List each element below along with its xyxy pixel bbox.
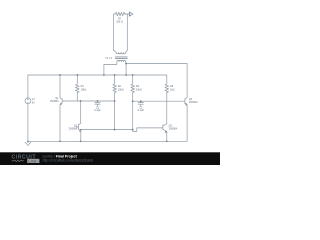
wire R7 left column (113, 14, 115, 50)
resistor R7 (top horizontal) (114, 12, 126, 16)
wire mid rail right segment (133, 100, 183, 102)
component labels (32, 18, 198, 131)
resistor R4 (165, 75, 169, 93)
wire R7 right column (126, 14, 128, 50)
svg-text:1kΩ: 1kΩ (170, 88, 175, 91)
transistor Q1 (mid-left, mirrored NPN) (60, 75, 64, 141)
svg-text:T1 1:1: T1 1:1 (105, 57, 113, 60)
wire R7 to flag (125, 13, 129, 15)
voltage source V1 (25, 98, 31, 104)
wire top rail (28, 74, 167, 76)
ground (25, 141, 31, 145)
wire V1 column bottom (27, 104, 29, 142)
svg-text:5V: 5V (32, 101, 35, 104)
svg-text:2N3904: 2N3904 (169, 127, 178, 130)
junction dots (27, 63, 168, 142)
wire column R3 down (132, 101, 134, 129)
capacitor C1 (95, 101, 100, 106)
output flag (129, 12, 133, 17)
svg-text:10kΩ: 10kΩ (81, 88, 87, 91)
transistor Q3 (bottom-right NPN) (163, 93, 167, 141)
wire Q2 emitter to cross-coupling (81, 129, 133, 131)
svg-text:0.1µF: 0.1µF (94, 109, 101, 112)
transformer T1 top winding (114, 50, 128, 54)
wire step to Q3 base (133, 128, 163, 131)
svg-text:2N3904: 2N3904 (189, 101, 198, 104)
transistor Q2 (bottom-left NPN) (76, 101, 80, 141)
wire collector feed Q4 (126, 63, 187, 65)
wire column P (114, 101, 116, 130)
svg-text:100 Ω: 100 Ω (116, 21, 123, 24)
resistor R3 (131, 75, 135, 101)
svg-text:0.1µF: 0.1µF (138, 109, 145, 112)
svg-text:10kΩ: 10kΩ (136, 88, 142, 91)
capacitor C2 (138, 101, 143, 106)
CircuitLab logo (12, 154, 40, 163)
wire T1 bottom-right lead (125, 64, 127, 76)
svg-text:10kΩ: 10kΩ (118, 88, 124, 91)
transformer T1 bottom winding (117, 60, 126, 64)
resistor R2 (113, 75, 117, 101)
svg-text:2N3904: 2N3904 (69, 128, 78, 131)
svg-text:http://circuitlab.com/c6kl2z6b: http://circuitlab.com/c6kl2z6bzk6 (43, 159, 93, 163)
footer bar (0, 152, 220, 165)
transformer T1 core (115, 57, 127, 59)
resistor R1 (76, 75, 80, 101)
svg-text:LAB: LAB (28, 158, 36, 163)
wire T1 bottom-left lead (104, 64, 117, 75)
svg-text:2N3904: 2N3904 (50, 100, 59, 103)
wire bottom rail (28, 140, 187, 142)
footer text (43, 154, 93, 162)
wire mid rail left segment (64, 100, 115, 102)
wire V1 column top (27, 75, 29, 98)
transistor Q4 (mid-right NPN) (182, 64, 187, 142)
